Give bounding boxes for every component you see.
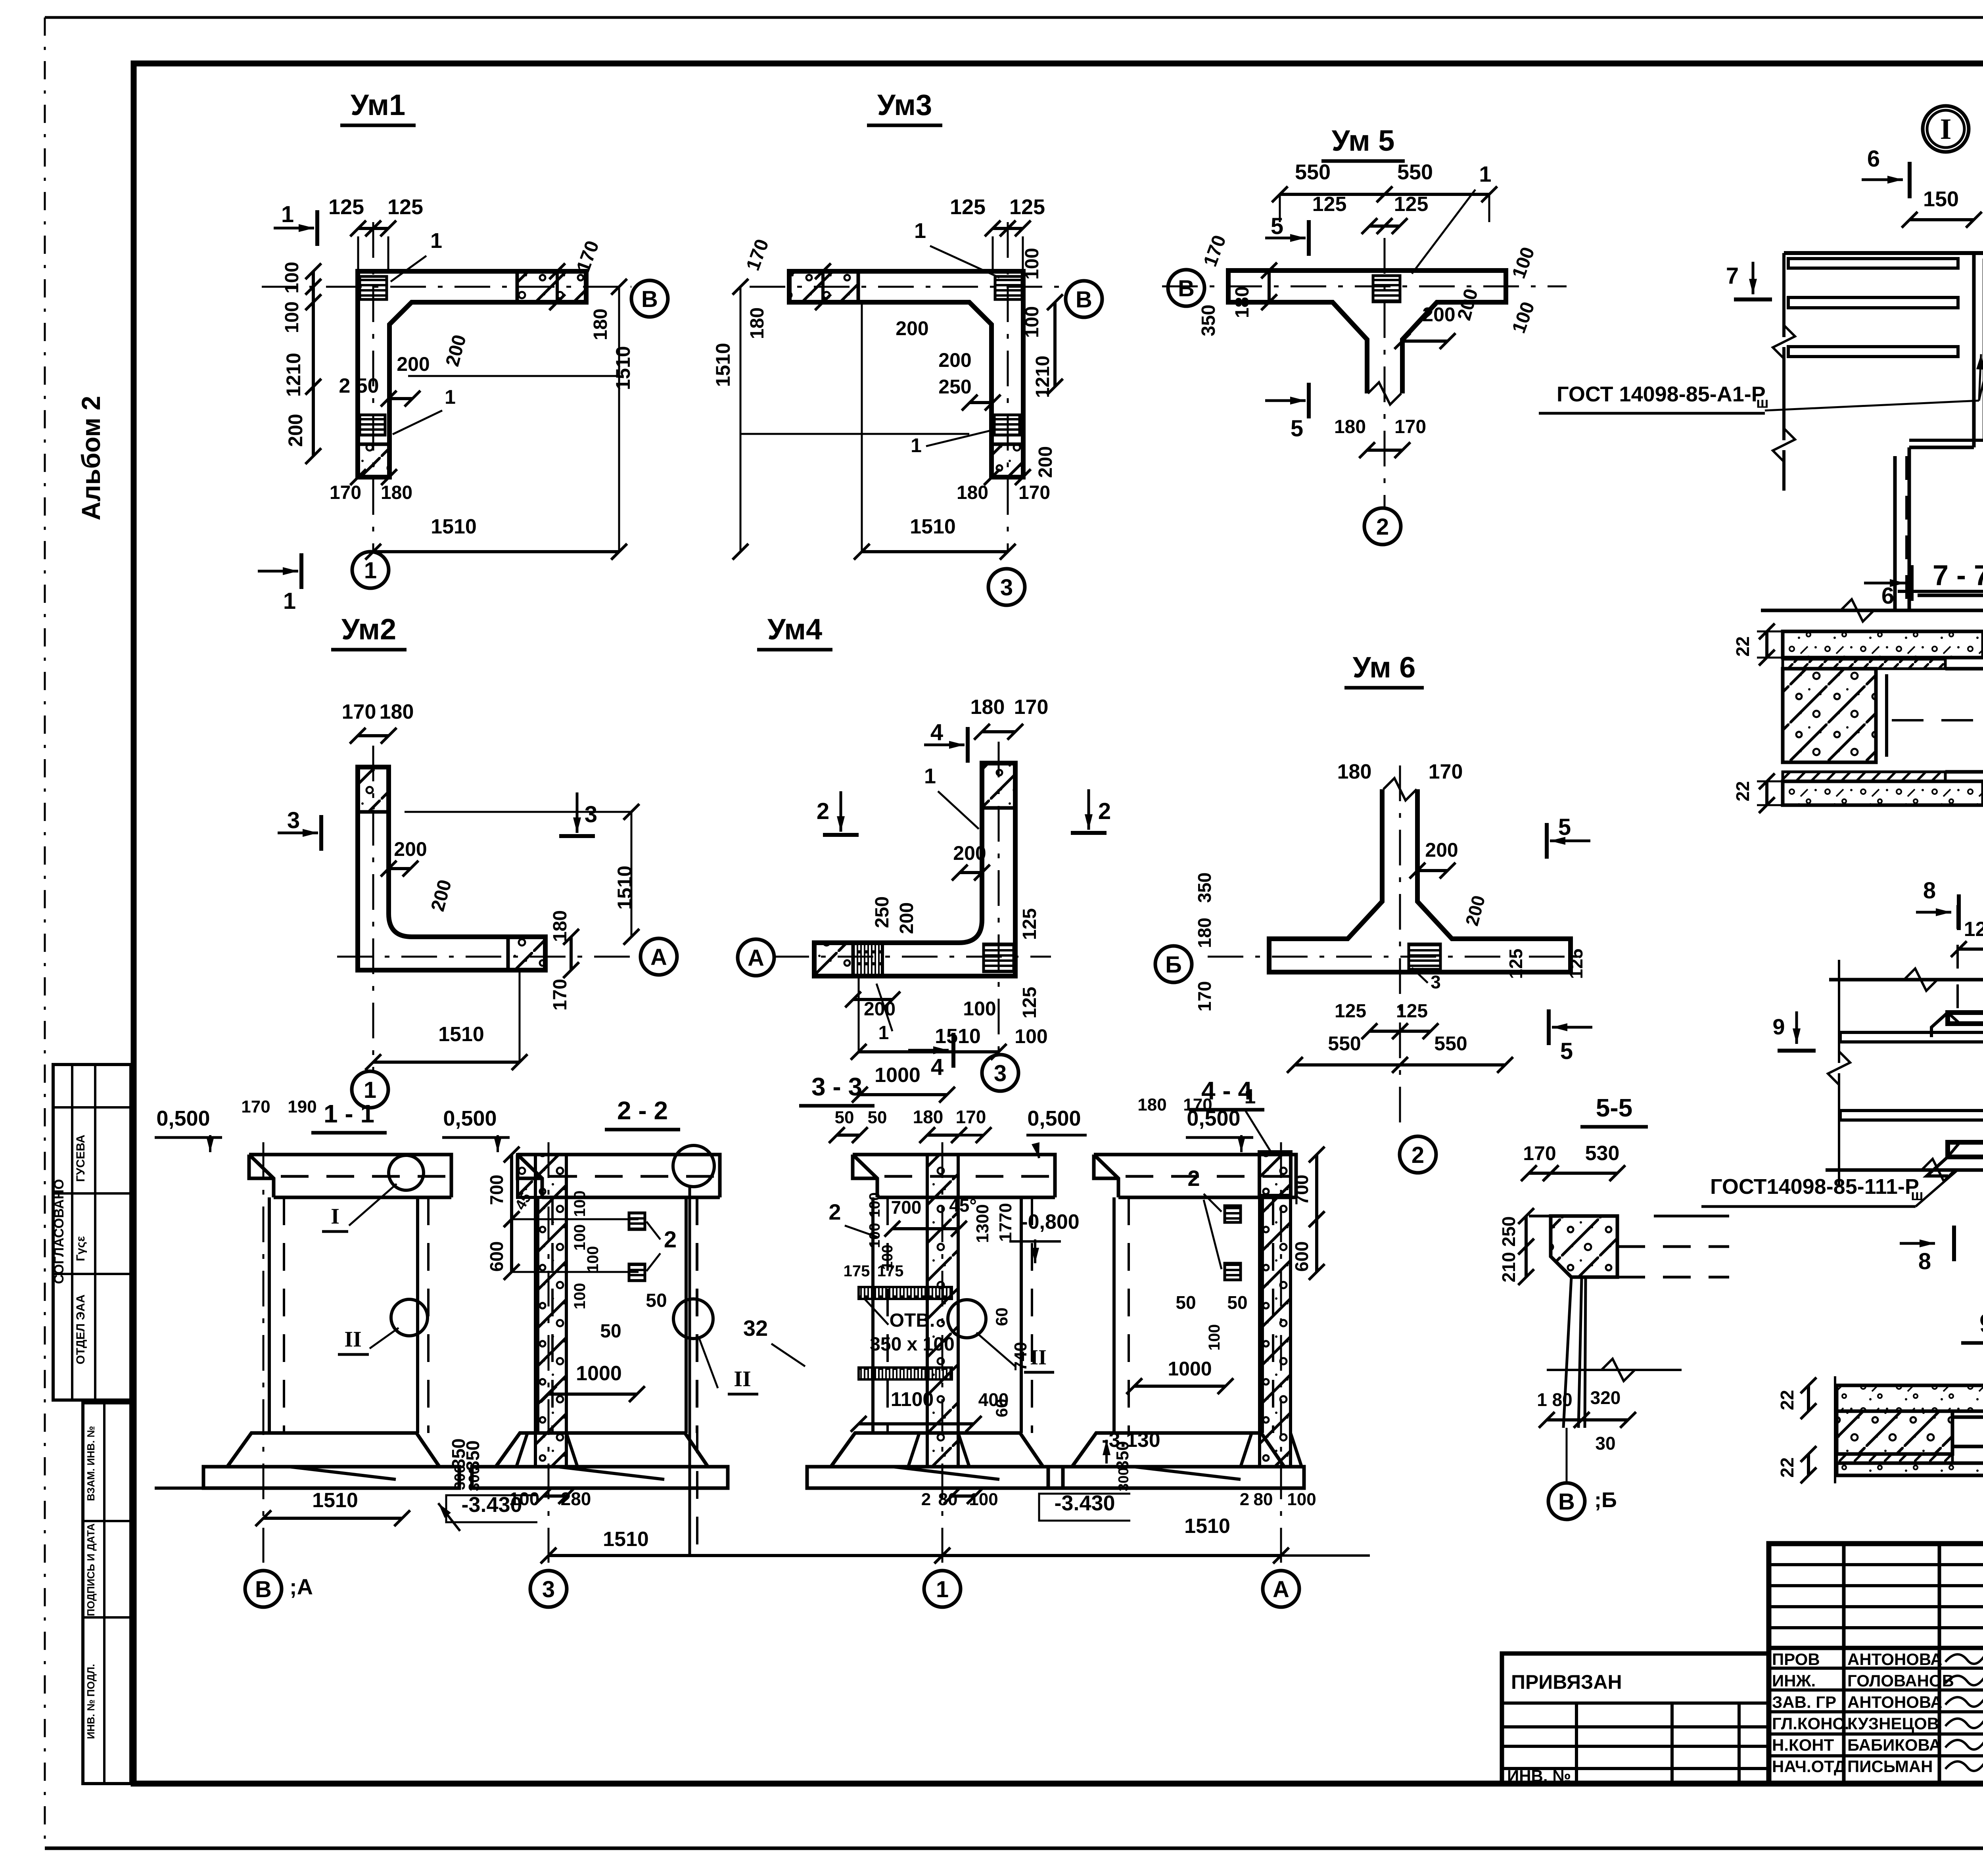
- 4-4 anchor plates: [1225, 1206, 1241, 1222]
- Um3 axes: [750, 286, 1066, 288]
- svg-text:2: 2: [817, 798, 829, 824]
- svg-text:700: 700: [1291, 1175, 1312, 1205]
- 2-2 anchor plates: [629, 1213, 645, 1230]
- svg-text:СОГЛАСОВАНО: СОГЛАСОВАНО: [52, 1179, 67, 1284]
- svg-text:ОТДЕЛ ЭАА: ОТДЕЛ ЭАА: [74, 1295, 87, 1364]
- 1-1 detail circles: [389, 1155, 424, 1190]
- svg-text:ГУСЕВА: ГУСЕВА: [74, 1135, 87, 1182]
- svg-text:100: 100: [509, 1489, 540, 1509]
- svg-text:100: 100: [1287, 1490, 1316, 1509]
- svg-text:180: 180: [590, 309, 611, 340]
- svg-text:350 х 100: 350 х 100: [870, 1334, 955, 1355]
- svg-text:ИНВ. №: ИНВ. №: [1507, 1767, 1571, 1785]
- svg-text:ИНВ. № ПОДЛ.: ИНВ. № ПОДЛ.: [85, 1664, 97, 1739]
- svg-text:125: 125: [1335, 1001, 1366, 1022]
- svg-text:125: 125: [1505, 949, 1526, 979]
- svg-text:1: 1: [1245, 1085, 1256, 1108]
- signatures: [1945, 1652, 1983, 1664]
- svg-text:170: 170: [1183, 1095, 1212, 1114]
- svg-text:100: 100: [963, 997, 996, 1020]
- svg-text:200: 200: [284, 414, 307, 447]
- figure Um2 walls: [358, 767, 545, 970]
- 5-5 hatched head: [1551, 1216, 1617, 1277]
- svg-text:200: 200: [953, 842, 986, 864]
- svg-text:1: 1: [283, 588, 296, 614]
- svg-text:6: 6: [1881, 583, 1894, 609]
- svg-text:8: 8: [1918, 1249, 1931, 1274]
- detail II drawing: [1829, 978, 1983, 982]
- svg-text:2 50: 2 50: [339, 374, 379, 397]
- Um2 axis circle A: [641, 938, 677, 975]
- svg-text:100: 100: [571, 1191, 589, 1217]
- 9-9 bottom bands: [1837, 1454, 1952, 1463]
- svg-text:1: 1: [878, 1022, 889, 1044]
- svg-text:22: 22: [1777, 1390, 1797, 1410]
- Um5 section marks 5: [1265, 237, 1306, 240]
- section 4-4: [1094, 1155, 1296, 1197]
- svg-text:170: 170: [1523, 1142, 1556, 1164]
- Um3 anchor mesh plates: [995, 276, 1022, 299]
- svg-text:3: 3: [542, 1577, 555, 1602]
- svg-text:1 - 1: 1 - 1: [324, 1099, 374, 1128]
- svg-text:2: 2: [921, 1490, 931, 1509]
- privyazan table: [1502, 1653, 1769, 1784]
- svg-text:170: 170: [550, 979, 571, 1011]
- Um1 hatched end bottom: [358, 444, 389, 477]
- svg-text:I: I: [331, 1204, 339, 1229]
- svg-text:В: В: [1558, 1489, 1575, 1515]
- svg-text:50: 50: [600, 1321, 621, 1342]
- svg-text:170: 170: [1018, 482, 1050, 503]
- svg-text:180: 180: [1194, 918, 1215, 948]
- svg-text:В: В: [1076, 287, 1092, 313]
- svg-text:200: 200: [394, 838, 427, 860]
- svg-text:50: 50: [1176, 1292, 1196, 1313]
- svg-text:7 - 7: 7 - 7: [1933, 560, 1983, 591]
- svg-text:7: 7: [1726, 263, 1739, 289]
- svg-text:3: 3: [585, 802, 597, 827]
- svg-text:50: 50: [835, 1108, 854, 1127]
- svg-text:175: 175: [844, 1262, 870, 1280]
- svg-text:125: 125: [1394, 193, 1429, 216]
- svg-text:170: 170: [1014, 696, 1049, 719]
- svg-text:170: 170: [956, 1107, 986, 1127]
- svg-text:5: 5: [1291, 416, 1303, 441]
- 7-7 left concrete block: [1783, 669, 1876, 762]
- svg-text:200: 200: [1035, 446, 1056, 478]
- Um3 axis circle 3: [988, 569, 1025, 605]
- svg-text:180: 180: [913, 1107, 944, 1127]
- Um5 anchor mesh plate: [1373, 276, 1400, 302]
- svg-text:А: А: [650, 944, 667, 970]
- Um1 axis circle B: [631, 280, 668, 317]
- Um1 axis circle 1: [352, 552, 389, 588]
- svg-text:22: 22: [1732, 636, 1753, 656]
- svg-text:В: В: [1178, 276, 1195, 301]
- svg-text:Ум1: Ум1: [351, 88, 405, 121]
- svg-text:200: 200: [896, 317, 928, 340]
- svg-text:ПОДПИСЬ И ДАТА: ПОДПИСЬ И ДАТА: [85, 1523, 97, 1616]
- detail II dashed axis: [1956, 905, 1959, 1015]
- svg-text:ЗАВ. ГР: ЗАВ. ГР: [1772, 1693, 1836, 1711]
- svg-text:100: 100: [1022, 306, 1043, 338]
- detail II rebars: [1840, 1032, 1983, 1042]
- svg-text:180: 180: [970, 696, 1005, 719]
- outer sheet border: [45, 16, 1983, 19]
- section 2-2: [518, 1155, 720, 1197]
- svg-text:100: 100: [1206, 1324, 1223, 1351]
- svg-text:80: 80: [1254, 1490, 1273, 1509]
- svg-text:3 - 3: 3 - 3: [811, 1072, 862, 1101]
- svg-text:180: 180: [1337, 760, 1372, 783]
- section 1-1: [249, 1155, 451, 1197]
- svg-text:БАБИКОВА: БАБИКОВА: [1847, 1736, 1941, 1754]
- Um1 axes: [262, 286, 631, 288]
- svg-text:170: 170: [342, 700, 376, 723]
- Um4 hatched end top: [982, 763, 1015, 808]
- svg-text:ГОЛОВАНОВ: ГОЛОВАНОВ: [1847, 1671, 1954, 1690]
- svg-text:ГЛ.КОНС.: ГЛ.КОНС.: [1772, 1714, 1849, 1733]
- svg-text:2 - 2: 2 - 2: [617, 1096, 668, 1125]
- section 3-3: [853, 1155, 1055, 1197]
- svg-text:180: 180: [1232, 286, 1253, 318]
- svg-text:180: 180: [957, 482, 988, 503]
- svg-text:1510: 1510: [712, 343, 734, 387]
- 3-3 opening otv: [859, 1287, 952, 1299]
- svg-text:ВЗАМ. ИНВ. №: ВЗАМ. ИНВ. №: [85, 1426, 97, 1501]
- svg-text:180: 180: [1137, 1095, 1166, 1114]
- svg-text:-3.430: -3.430: [1054, 1491, 1115, 1515]
- svg-text:170: 170: [330, 482, 361, 503]
- Um1 section mark 1 bottom: [258, 570, 298, 573]
- Um3 axis circle B: [1066, 281, 1102, 317]
- svg-text:Ум2: Ум2: [341, 613, 396, 646]
- svg-text:ПРОВ: ПРОВ: [1772, 1650, 1820, 1669]
- svg-text:1510: 1510: [614, 865, 636, 909]
- left stamp table (Soglasovano): [53, 1065, 131, 1400]
- svg-text:5: 5: [1271, 213, 1283, 239]
- svg-text:170: 170: [1394, 416, 1426, 437]
- svg-text:ш: ш: [1756, 395, 1769, 411]
- svg-text:1510: 1510: [1184, 1515, 1230, 1538]
- svg-text:II: II: [344, 1327, 362, 1352]
- svg-text:ПИСЬМАН: ПИСЬМАН: [1847, 1757, 1933, 1776]
- svg-text:3: 3: [994, 1061, 1007, 1086]
- svg-text:8: 8: [1923, 878, 1936, 903]
- svg-text:180: 180: [380, 700, 414, 723]
- svg-text:200: 200: [397, 353, 430, 375]
- svg-text:50: 50: [1227, 1292, 1247, 1313]
- svg-text:320: 320: [1590, 1387, 1621, 1408]
- svg-text:740: 740: [1011, 1342, 1030, 1371]
- Um2 section marks 3: [278, 832, 318, 834]
- svg-text:300: 300: [466, 1466, 483, 1491]
- svg-text:АНТОНОВА: АНТОНОВА: [1847, 1650, 1943, 1669]
- svg-text:2: 2: [1098, 798, 1111, 824]
- svg-text:4: 4: [931, 1054, 944, 1080]
- svg-text:1510: 1510: [312, 1489, 358, 1512]
- svg-text:350: 350: [1198, 305, 1219, 336]
- Um4 axes: [998, 742, 1000, 1055]
- svg-text:1770: 1770: [996, 1203, 1015, 1242]
- Um6 axes: [1399, 765, 1401, 1134]
- svg-text:;А: ;А: [290, 1574, 313, 1599]
- 9-9 mid concrete block: [1837, 1411, 1952, 1454]
- svg-text:22: 22: [1777, 1457, 1797, 1477]
- svg-text:5: 5: [1560, 1038, 1573, 1064]
- svg-text:600: 600: [1291, 1241, 1312, 1272]
- svg-text:КУЗНЕЦОВ: КУЗНЕЦОВ: [1847, 1714, 1939, 1733]
- svg-text:600: 600: [486, 1241, 507, 1272]
- svg-text:150: 150: [1923, 187, 1959, 211]
- svg-text:1: 1: [911, 434, 922, 457]
- svg-text:1300: 1300: [973, 1204, 992, 1243]
- svg-text:ГОСТ14098-85-111-Р: ГОСТ14098-85-111-Р: [1710, 1175, 1919, 1199]
- section 7-7 slab bands: [1783, 631, 1983, 658]
- svg-text:700: 700: [891, 1197, 922, 1218]
- svg-text:125: 125: [1019, 987, 1040, 1019]
- svg-text:1510: 1510: [910, 515, 956, 538]
- svg-text:2: 2: [828, 1199, 841, 1224]
- svg-text:-0,800: -0,800: [1021, 1210, 1079, 1233]
- 7-7 channel opening lines: [1945, 667, 1983, 671]
- svg-text:1210: 1210: [282, 353, 305, 397]
- svg-text:530: 530: [1585, 1142, 1620, 1165]
- 5-5 axis circle: [1566, 1428, 1568, 1481]
- svg-text:100: 100: [282, 262, 303, 293]
- svg-text:1100: 1100: [891, 1388, 934, 1410]
- Um2 axes: [372, 746, 374, 1071]
- Um4 axis circle A: [738, 939, 774, 976]
- svg-text:А: А: [748, 945, 764, 971]
- svg-text:1000: 1000: [576, 1362, 622, 1385]
- svg-text:4: 4: [930, 719, 943, 745]
- Um1 hatched end right: [517, 271, 586, 302]
- Um2 hatched end top: [358, 767, 389, 812]
- Um3 hatched end bottom: [991, 444, 1023, 477]
- svg-text:1510: 1510: [603, 1528, 649, 1551]
- 9-9 channel lines: [1952, 1416, 1983, 1419]
- svg-text:170: 170: [1194, 981, 1215, 1012]
- Um4 axis circle 3: [982, 1055, 1018, 1091]
- svg-text:170: 170: [241, 1097, 270, 1116]
- svg-text:ГОСТ 14098-85-А1-Р: ГОСТ 14098-85-А1-Р: [1557, 382, 1766, 406]
- svg-text:300: 300: [1115, 1467, 1131, 1491]
- svg-text:2: 2: [664, 1227, 677, 1253]
- svg-text:125: 125: [1566, 949, 1586, 979]
- Um2 hatched end right: [508, 937, 545, 970]
- svg-text:5-5: 5-5: [1596, 1093, 1633, 1122]
- Um4 anchor mesh plate: [984, 944, 1014, 972]
- svg-text:Б: Б: [1165, 952, 1182, 978]
- svg-text:50: 50: [868, 1108, 887, 1127]
- svg-text:2: 2: [1411, 1142, 1424, 1168]
- svg-text:Гγςε: Гγςε: [74, 1236, 87, 1261]
- svg-text:Ум 6: Ум 6: [1353, 651, 1416, 684]
- svg-text:В: В: [255, 1577, 272, 1602]
- svg-text:1: 1: [1479, 161, 1491, 186]
- svg-text:1510: 1510: [612, 346, 634, 390]
- Um1 anchor mesh plates: [360, 276, 387, 299]
- figure Um1 walls: [358, 271, 586, 477]
- svg-text:700: 700: [486, 1175, 507, 1205]
- figure Um3 walls: [789, 271, 1023, 477]
- svg-text:350: 350: [1194, 873, 1215, 903]
- svg-text:125: 125: [950, 195, 986, 219]
- svg-text:Ум4: Ум4: [767, 613, 822, 646]
- svg-text:50: 50: [646, 1290, 667, 1311]
- svg-text:120: 120: [1964, 918, 1983, 941]
- 5-5 dashed lines right: [1617, 1245, 1729, 1248]
- svg-text:2: 2: [1240, 1490, 1249, 1509]
- svg-text:Н.КОНТ: Н.КОНТ: [1772, 1736, 1834, 1754]
- svg-text:100: 100: [1022, 248, 1043, 280]
- svg-text:180: 180: [1334, 416, 1366, 437]
- svg-text:2: 2: [1187, 1166, 1200, 1191]
- svg-text:32: 32: [743, 1316, 768, 1341]
- svg-text:100: 100: [867, 1223, 883, 1248]
- svg-text:550: 550: [1295, 160, 1331, 184]
- svg-text:180: 180: [747, 307, 768, 339]
- svg-text:1: 1: [936, 1577, 949, 1602]
- svg-text:А: А: [1273, 1577, 1289, 1602]
- svg-text:210: 210: [1498, 1252, 1519, 1283]
- svg-text:II: II: [734, 1367, 751, 1391]
- 2-2 slab top hatch end: [518, 1155, 566, 1197]
- 5-5 legs: [1563, 1277, 1586, 1428]
- svg-text:В: В: [641, 286, 658, 312]
- svg-text:5: 5: [1558, 814, 1571, 840]
- 5-5 mid line: [1547, 1369, 1682, 1371]
- svg-text:II: II: [1030, 1345, 1047, 1369]
- Um1 section mark 1 top: [274, 227, 314, 230]
- svg-text:1000: 1000: [1168, 1358, 1212, 1380]
- svg-text:1: 1: [430, 229, 442, 253]
- Um6 anchor mesh plate: [1409, 944, 1440, 969]
- figure Um4 walls: [814, 763, 1015, 976]
- svg-text:400: 400: [978, 1389, 1009, 1410]
- svg-text:АНТОНОВА: АНТОНОВА: [1847, 1693, 1943, 1711]
- svg-text:180: 180: [550, 910, 571, 942]
- svg-text:250: 250: [938, 376, 971, 398]
- svg-text:ОТВ.: ОТВ.: [890, 1310, 935, 1331]
- 2-2 circles I II: [673, 1145, 714, 1187]
- detail I drawing: [1782, 253, 1785, 337]
- left inventory table: [83, 1403, 131, 1784]
- svg-text:1: 1: [364, 558, 377, 583]
- svg-text:Ум3: Ум3: [877, 88, 932, 121]
- svg-text:3: 3: [1000, 575, 1013, 600]
- svg-text:550: 550: [1397, 160, 1433, 184]
- svg-text:0,500: 0,500: [1027, 1107, 1081, 1130]
- svg-text:0,500: 0,500: [156, 1107, 210, 1130]
- svg-text:60: 60: [992, 1308, 1011, 1326]
- svg-text:100: 100: [282, 301, 303, 333]
- svg-text:ИНЖ.: ИНЖ.: [1772, 1671, 1816, 1690]
- svg-text:100: 100: [1015, 1025, 1047, 1047]
- svg-text:100: 100: [571, 1283, 589, 1310]
- svg-text:1510: 1510: [438, 1023, 484, 1046]
- svg-text:350: 350: [1113, 1441, 1132, 1470]
- svg-text:ПРИВЯЗАН: ПРИВЯЗАН: [1511, 1671, 1622, 1693]
- svg-text:200: 200: [896, 902, 917, 934]
- svg-text:1: 1: [281, 201, 294, 227]
- svg-text:1: 1: [924, 764, 936, 788]
- Um4 hatched end left: [814, 943, 853, 976]
- svg-text:2: 2: [1376, 514, 1389, 540]
- detail II formwork channel: [1948, 1013, 1983, 1157]
- svg-text:125: 125: [1312, 193, 1347, 216]
- svg-text:1 80: 1 80: [1537, 1389, 1573, 1410]
- svg-text:3: 3: [1431, 972, 1441, 992]
- svg-text:170: 170: [1429, 760, 1463, 783]
- svg-text:1: 1: [445, 386, 456, 408]
- svg-text:190: 190: [288, 1097, 316, 1116]
- svg-text:9-9: 9-9: [1979, 1308, 1983, 1339]
- svg-text:1510: 1510: [431, 515, 477, 538]
- svg-text:125: 125: [1396, 1001, 1428, 1022]
- Um6 axis circle 2: [1400, 1136, 1436, 1173]
- svg-text:125: 125: [1009, 195, 1045, 219]
- Um4 ribbed block: [853, 943, 882, 976]
- 7-7 bottom bands: [1783, 772, 1945, 781]
- svg-text:550: 550: [1328, 1032, 1361, 1055]
- Um5 axes: [1162, 286, 1567, 288]
- svg-text:30: 30: [1595, 1433, 1615, 1454]
- detail I circle: [1923, 106, 1969, 152]
- svg-text:125: 125: [387, 195, 423, 219]
- svg-text:6: 6: [1867, 146, 1880, 172]
- 3-3 circle II: [948, 1300, 986, 1338]
- 4-4 slab top hatch end: [1259, 1152, 1291, 1195]
- Um3 hatched end left: [789, 271, 858, 302]
- svg-text:100: 100: [867, 1192, 883, 1217]
- svg-text:200: 200: [1422, 303, 1455, 326]
- svg-text:0,500: 0,500: [443, 1107, 497, 1130]
- svg-text:180: 180: [381, 482, 412, 503]
- svg-text:550: 550: [1434, 1032, 1467, 1055]
- svg-text:250: 250: [1498, 1216, 1519, 1247]
- Um6 axis circle B(letter Б): [1155, 946, 1192, 982]
- section 9-9 bands: [1837, 1385, 1983, 1411]
- svg-text:175: 175: [877, 1262, 904, 1280]
- svg-text:250: 250: [872, 896, 893, 928]
- svg-text:НАЧ.ОТД: НАЧ.ОТД: [1772, 1757, 1846, 1776]
- title block: [1769, 1544, 1983, 1784]
- figure Um5 walls (tee): [1228, 270, 1506, 393]
- svg-text:1: 1: [914, 219, 926, 243]
- Um6 section marks 5: [1550, 840, 1590, 842]
- svg-text:22: 22: [1732, 781, 1753, 801]
- svg-text:3: 3: [287, 808, 300, 833]
- svg-text:1510: 1510: [935, 1025, 981, 1048]
- figure Um6 walls (tee up): [1269, 789, 1571, 972]
- svg-text:125: 125: [328, 195, 364, 219]
- svg-text:;Б: ;Б: [1594, 1488, 1617, 1512]
- Um5 axis circle 2: [1364, 508, 1401, 545]
- svg-text:200: 200: [1425, 839, 1458, 861]
- detail I formwork: [1972, 253, 1976, 447]
- svg-text:Ум 5: Ум 5: [1332, 124, 1395, 157]
- svg-text:100: 100: [584, 1246, 602, 1273]
- svg-text:I: I: [1940, 113, 1952, 146]
- Um2 axis circle 1: [352, 1071, 388, 1108]
- Um4 section marks: [840, 791, 842, 832]
- svg-text:125: 125: [1019, 908, 1040, 940]
- svg-text:Альбом 2: Альбом 2: [76, 396, 105, 520]
- svg-text:1000: 1000: [875, 1064, 921, 1087]
- svg-text:9: 9: [1772, 1014, 1785, 1039]
